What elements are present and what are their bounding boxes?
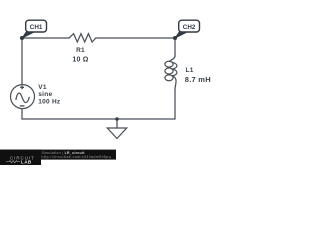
node junction CH2 [173,36,177,40]
wire bottom [22,118,175,120]
wire left top segment [21,38,23,85]
ground stub [116,119,118,128]
voltage source V1 circle [11,85,35,109]
svg-text:100 Hz: 100 Hz [38,99,61,106]
node junction ground [115,117,119,121]
wire right bottom segment [174,89,176,119]
CH2 probe bubble tail [175,31,188,38]
V1 plus sign [20,86,25,106]
wire left bottom segment [21,109,23,120]
CH1 probe bubble [26,20,47,32]
svg-text:V1: V1 [38,84,47,91]
svg-text:sine: sine [38,91,52,98]
svg-text:R1: R1 [76,47,85,54]
CH2 probe bubble [179,20,200,32]
V1 sine wave [16,93,29,102]
wire right top segment [174,38,176,55]
CH1 probe bubble tail [22,31,35,38]
footer text bar [0,150,116,160]
svg-text:CH2: CH2 [183,24,196,31]
node junction CH1 [20,36,24,40]
svg-text:8.7 mH: 8.7 mH [185,75,211,84]
svg-text:LAB: LAB [21,160,32,165]
V1 minus sign [20,105,25,107]
wire top-left to resistor [22,37,69,39]
ground triangle [107,128,126,139]
svg-text:http://circuitlab.com/c344adm5: http://circuitlab.com/c344adm5h5pq [42,155,112,159]
inductor L1 [170,55,176,62]
footer logo box [0,150,41,165]
logo resistor zigzag [6,161,20,163]
svg-text:L1: L1 [186,67,194,74]
svg-text:CH1: CH1 [30,24,43,31]
svg-text:10 Ω: 10 Ω [72,57,88,64]
wire resistor to top-right corner [96,37,175,39]
resistor R1 [69,34,96,42]
